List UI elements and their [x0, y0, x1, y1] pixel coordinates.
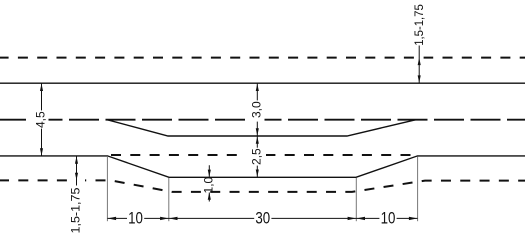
svg-text:1,5-1,75: 1,5-1,75 [69, 187, 83, 233]
text mask 10 left [127, 212, 144, 225]
horizontal dimension line 10/30/10 [107, 217, 417, 219]
arrow up tip 3,0 top [256, 84, 259, 91]
svg-text:3,0: 3,0 [249, 101, 263, 118]
extension line right outer [417, 157, 419, 222]
svg-text:30: 30 [255, 209, 270, 227]
svg-text:1,5-1,75: 1,5-1,75 [412, 4, 426, 46]
arrow down tip 1,5-1,75 bottom dim [75, 173, 78, 180]
extension line left outer [106, 157, 108, 221]
middle short-dash line across bay mouth [109, 154, 417, 156]
arrow right tip 30 dim [348, 217, 357, 220]
svg-text:4,5: 4,5 [34, 111, 48, 128]
dimension line 1,5-1,75 top [418, 46, 420, 84]
top solid lane line [0, 82, 525, 84]
arrow right tip 10-right dim [409, 217, 418, 220]
text mask 30 [254, 212, 271, 225]
arrow up tip 1,5-1,75 top dim [418, 58, 421, 65]
arrow right tip 10-left dim [160, 217, 169, 220]
dimension line 4,5 [41, 84, 43, 156]
center long-dash line [0, 119, 525, 121]
svg-text:2,5: 2,5 [249, 148, 263, 165]
svg-text:1,0: 1,0 [201, 176, 215, 193]
text mask 10 right [379, 212, 396, 225]
dimension line 1,0 [208, 165, 210, 201]
svg-text:10: 10 [128, 209, 143, 227]
extension line left inner [168, 178, 170, 221]
arrow up tip 1,5-1,75 bottom dim [75, 156, 78, 163]
dimension line 1,5-1,75 bottom-left [76, 156, 78, 185]
extension line right inner [355, 178, 357, 221]
arrow up tip 2,5 top [256, 136, 259, 143]
arrow down tip 4,5 bottom [40, 148, 43, 155]
bottom solid edge line with bay dip [0, 156, 525, 177]
gap in bottom-left dashed line at dimension crossing [70, 178, 86, 183]
bottom dashed edge marking with dip [0, 180, 525, 192]
text mask 2,5 [246, 148, 266, 166]
top edge dashed marking line [0, 57, 525, 59]
arrow down tip 2,5 bottom [256, 170, 259, 177]
gap in top dashed line at dimension crossing [415, 55, 424, 61]
arrow up tip 1,0 bottom (outside) [208, 192, 211, 199]
text mask 4,5 [31, 110, 49, 128]
arrow down tip 1,5-1,75 top dim [418, 75, 421, 82]
svg-text:10: 10 [381, 209, 396, 227]
arrow left tip 10-right dim [357, 217, 366, 220]
arrow left tip 30 dim [169, 217, 178, 220]
dimension line 3,0 / 2,5 [256, 84, 258, 178]
text mask 1,0 [203, 179, 214, 190]
arrow down tip 1,0 top (outside) [208, 170, 211, 177]
arrow up tip 4,5 top [40, 84, 43, 91]
upper bay outline solid line (dip) [107, 120, 416, 136]
arrow left tip 10-left dim [108, 217, 117, 220]
text mask 3,0 [247, 100, 265, 121]
arrow down tip 3,0 bottom [256, 128, 259, 135]
